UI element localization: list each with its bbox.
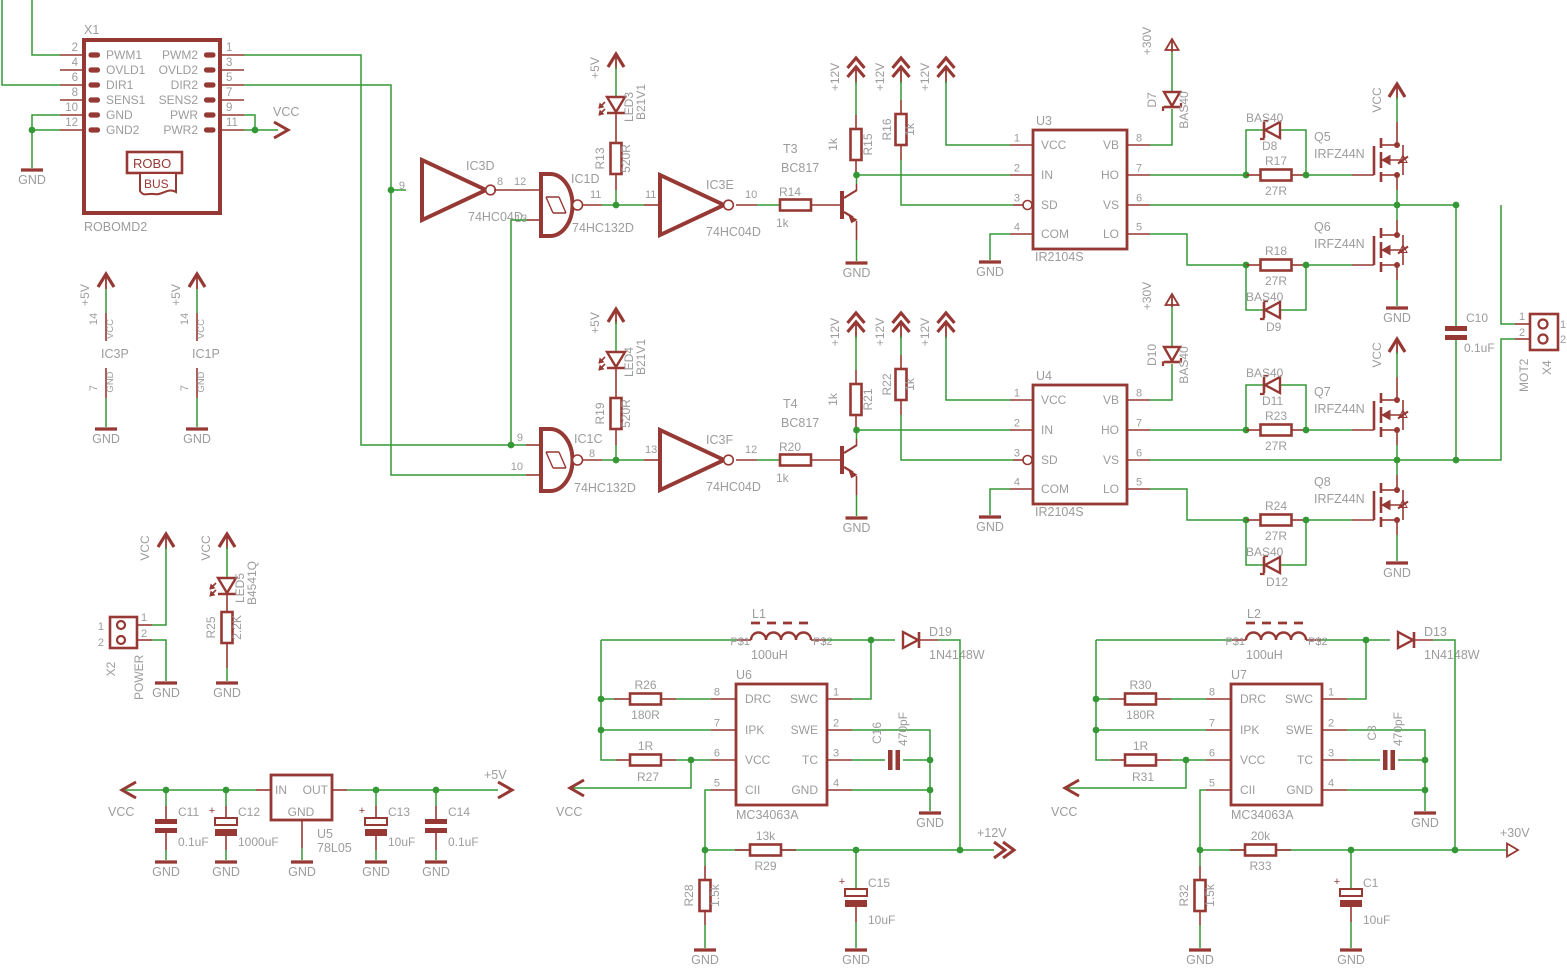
- wire VCC column to L2: [1096, 639, 1231, 641]
- svg-text:IPK: IPK: [745, 723, 764, 737]
- LED LED3 B21V1: [599, 84, 648, 122]
- inverter IC3E 74HC04D: [660, 175, 761, 239]
- svg-text:1k: 1k: [776, 216, 790, 230]
- svg-text:T3: T3: [783, 142, 798, 156]
- wire C14 to ground: [435, 833, 437, 860]
- svg-text:IR2104S: IR2104S: [1035, 250, 1084, 264]
- svg-text:4: 4: [1014, 222, 1020, 234]
- resistor R33 20k: [1230, 829, 1291, 873]
- svg-text:IC3F: IC3F: [706, 433, 733, 447]
- wire Q5 source to VS node: [1396, 175, 1398, 205]
- svg-text:10: 10: [511, 461, 523, 473]
- svg-text:1: 1: [1519, 311, 1525, 323]
- voltage regulator U5 78L05: [256, 775, 352, 855]
- svg-text:GND: GND: [1186, 953, 1214, 967]
- svg-text:8: 8: [1136, 388, 1142, 400]
- wire VS node to Q8 drain: [1396, 460, 1398, 490]
- wire R24 to Q8 gate: [1306, 519, 1374, 521]
- svg-text:IRFZ44N: IRFZ44N: [1314, 402, 1365, 416]
- diode D19 1N4148W: [871, 625, 985, 662]
- svg-text:IC1C: IC1C: [574, 432, 602, 446]
- ground under C15: [842, 950, 870, 967]
- ground under U5: [288, 862, 316, 879]
- wire VS1 to C10: [1455, 205, 1457, 326]
- supply +30V arrow above D10: [1140, 282, 1179, 310]
- wire U3 COM to ground: [990, 234, 1010, 260]
- wire VCC to LED5: [226, 547, 228, 578]
- wire VCC tap to arrow: [1068, 760, 1186, 788]
- resistor R24 27R: [1246, 499, 1306, 543]
- svg-text:0.1uF: 0.1uF: [448, 835, 479, 849]
- pin label 9 IC3D input: [399, 180, 405, 192]
- diode D11 BAS40 bypass: [1246, 366, 1306, 430]
- svg-text:D13: D13: [1424, 625, 1447, 639]
- junction VCC tap: [688, 757, 695, 764]
- LED LED4 B21V1: [599, 339, 648, 377]
- svg-text:0.1uF: 0.1uF: [1464, 341, 1495, 355]
- svg-text:GND: GND: [183, 432, 211, 446]
- junction VS at cap column: [1453, 202, 1460, 209]
- supply +12V arrow above R21: [828, 313, 865, 346]
- junction node PWM2 at IC1C pin 9: [508, 442, 515, 449]
- svg-text:7: 7: [1136, 418, 1142, 430]
- svg-text:COM: COM: [1041, 482, 1069, 496]
- capacitor C14 0.1uF: [425, 805, 479, 849]
- svg-text:OVLD2: OVLD2: [159, 63, 199, 77]
- svg-text:Q5: Q5: [1314, 130, 1331, 144]
- svg-text:74HC04D: 74HC04D: [706, 225, 761, 239]
- svg-text:PWR2: PWR2: [163, 123, 198, 137]
- svg-text:VCC: VCC: [1370, 342, 1384, 368]
- svg-text:DIR2: DIR2: [171, 78, 199, 92]
- svg-text:1.5k: 1.5k: [1203, 883, 1217, 907]
- wire VS to cap column: [1397, 459, 1456, 461]
- pin label 11/13 IC3E input: [645, 189, 656, 201]
- svg-text:HO: HO: [1101, 168, 1119, 182]
- svg-text:5: 5: [226, 72, 232, 84]
- wire SWC up: [1347, 640, 1366, 699]
- wire +30V to D7: [1171, 52, 1173, 92]
- svg-text:470pF: 470pF: [896, 712, 910, 746]
- supply VCC arrow above Q7: [1370, 339, 1405, 368]
- wire D7 to VB pin: [1150, 109, 1172, 145]
- svg-text:GND: GND: [691, 953, 719, 967]
- svg-text:X1: X1: [84, 23, 99, 37]
- junction GND node: [1422, 787, 1429, 794]
- svg-text:11: 11: [645, 189, 656, 201]
- wire L2 to D13: [1321, 639, 1366, 641]
- resistor R30 180R: [1096, 678, 1206, 722]
- resistor R23 27R: [1246, 409, 1306, 453]
- svg-text:1R: 1R: [638, 739, 654, 753]
- svg-text:520R: 520R: [619, 399, 633, 428]
- svg-text:IN: IN: [275, 783, 287, 797]
- junction SWC node: [1363, 637, 1370, 644]
- svg-text:PWR: PWR: [170, 108, 198, 122]
- svg-text:VCC: VCC: [273, 105, 299, 119]
- svg-text:SD: SD: [1041, 198, 1058, 212]
- svg-text:7: 7: [179, 385, 191, 391]
- wire IC3E out to R14: [736, 204, 780, 206]
- wire cap column to ground: [1424, 760, 1426, 811]
- svg-text:R14: R14: [779, 185, 801, 199]
- resistor R25 2.2K: [204, 612, 244, 643]
- junction R28 top: [702, 847, 709, 854]
- svg-text:GND: GND: [916, 816, 944, 830]
- svg-text:DIR1: DIR1: [106, 78, 134, 92]
- diode D8 BAS40 bypass: [1246, 111, 1306, 175]
- svg-text:VCC: VCC: [108, 805, 134, 819]
- svg-text:12: 12: [514, 176, 526, 188]
- svg-text:1: 1: [1014, 388, 1020, 400]
- svg-text:+12V: +12V: [873, 318, 887, 346]
- svg-text:10uF: 10uF: [1363, 913, 1390, 927]
- junction GND node: [927, 787, 934, 794]
- wire VCC to Q7 drain: [1396, 352, 1398, 400]
- svg-text:20k: 20k: [1251, 829, 1271, 843]
- svg-text:LO: LO: [1103, 227, 1119, 241]
- svg-text:SD: SD: [1041, 453, 1058, 467]
- wire IC1D output to node: [583, 204, 616, 206]
- wire SWE to cap column: [852, 730, 930, 760]
- svg-text:R30: R30: [1129, 678, 1151, 692]
- svg-text:GND: GND: [105, 371, 116, 392]
- svg-text:8: 8: [1136, 133, 1142, 145]
- supply +12V arrow for driver VCC: [918, 58, 955, 91]
- svg-text:+12V: +12V: [828, 63, 842, 91]
- svg-text:VCC: VCC: [138, 535, 152, 561]
- resistor R20 1k: [776, 440, 811, 485]
- svg-text:MC34063A: MC34063A: [736, 808, 799, 822]
- svg-text:GND: GND: [1286, 783, 1313, 797]
- wire L1 to D19: [826, 639, 871, 641]
- wire column junction R30: [1093, 696, 1100, 734]
- junction node DIR2 at IC3D input: [388, 187, 395, 194]
- op-amp driver U4 IR2104S: [1010, 369, 1150, 519]
- wire T3 emitter to ground: [856, 221, 858, 261]
- svg-text:GND: GND: [976, 265, 1004, 279]
- wire VS to cap column: [1397, 204, 1456, 206]
- svg-text:BAS40: BAS40: [1177, 346, 1191, 384]
- wire D10 to VB pin: [1150, 364, 1172, 400]
- wire feedback rail: [1200, 849, 1455, 851]
- svg-text:GND: GND: [212, 865, 240, 879]
- capacitor C3 470pF: [1347, 712, 1425, 770]
- svg-text:R15: R15: [861, 133, 875, 155]
- nand gate IC1C 74HC132D: [541, 429, 636, 495]
- junction collector node: [853, 427, 860, 434]
- wire +12V to driver VCC pin: [946, 336, 1010, 400]
- svg-text:VS: VS: [1103, 453, 1119, 467]
- svg-text:L2: L2: [1247, 607, 1261, 621]
- wire +12V to R22: [900, 336, 902, 355]
- wire net GND from X2 pin 2: [152, 640, 166, 681]
- svg-text:VS: VS: [1103, 198, 1119, 212]
- svg-text:100uH: 100uH: [751, 648, 788, 662]
- wire T3 collector: [856, 175, 858, 190]
- svg-text:SWE: SWE: [791, 723, 818, 737]
- svg-text:IRFZ44N: IRFZ44N: [1314, 237, 1365, 251]
- wire U4 COM to ground: [990, 489, 1010, 515]
- svg-text:C15: C15: [868, 876, 890, 890]
- svg-text:U4: U4: [1036, 369, 1052, 383]
- svg-text:5: 5: [1136, 222, 1142, 234]
- ground under X2: [152, 683, 180, 700]
- svg-text:180R: 180R: [1126, 708, 1155, 722]
- wire collector node to driver IN: [857, 429, 1011, 431]
- supply VCC arrow above LED5: [199, 534, 235, 561]
- svg-text:X2: X2: [104, 661, 118, 676]
- svg-text:R33: R33: [1249, 859, 1271, 873]
- svg-text:+12V: +12V: [918, 63, 932, 91]
- svg-text:2: 2: [1014, 163, 1020, 175]
- svg-text:TC: TC: [802, 753, 818, 767]
- svg-text:R32: R32: [1177, 884, 1191, 906]
- svg-text:P$1: P$1: [730, 636, 750, 648]
- resistor R32 1.5k: [1177, 850, 1217, 948]
- svg-text:520R: 520R: [619, 144, 633, 173]
- svg-text:GND: GND: [196, 371, 207, 392]
- ground under T4: [843, 518, 871, 535]
- wire node to inverter input: [616, 459, 660, 461]
- svg-text:U6: U6: [736, 668, 752, 682]
- ground under C16: [916, 813, 944, 830]
- svg-text:GND: GND: [843, 521, 871, 535]
- svg-text:+12V: +12V: [873, 63, 887, 91]
- wire IC1D pin 13 to IC1C pin 9: [511, 220, 541, 445]
- wire Q6 source to ground: [1396, 265, 1398, 306]
- connector X2 POWER: [98, 612, 152, 700]
- svg-text:C13: C13: [388, 805, 410, 819]
- junction C15 top: [853, 847, 860, 854]
- svg-text:VCC: VCC: [1041, 138, 1067, 152]
- svg-text:1: 1: [833, 687, 839, 699]
- wire R25 to ground: [226, 643, 228, 681]
- wire +12V to R15: [855, 81, 857, 115]
- svg-text:GND: GND: [288, 805, 315, 819]
- svg-text:LO: LO: [1103, 482, 1119, 496]
- junction VCC tap: [1183, 757, 1190, 764]
- ground under C12: [212, 862, 240, 879]
- wire CII down: [705, 790, 711, 850]
- svg-text:GND: GND: [152, 865, 180, 879]
- svg-text:VCC: VCC: [745, 753, 771, 767]
- svg-text:L1: L1: [752, 607, 766, 621]
- resistor R29 13k: [735, 829, 796, 873]
- svg-text:7: 7: [226, 87, 232, 99]
- transistor T4 BC817: [781, 397, 857, 478]
- wire VS2 to X4 pin 2: [1456, 339, 1515, 460]
- supply VCC arrow above Q5: [1370, 84, 1405, 113]
- wire D13 to output rail: [1433, 640, 1455, 850]
- op-amp converter U7 MC34063A: [1206, 668, 1347, 822]
- op-amp driver U3 IR2104S: [1010, 114, 1150, 264]
- svg-text:1: 1: [1014, 133, 1020, 145]
- svg-text:VCC: VCC: [1240, 753, 1266, 767]
- junction C11 on rail: [163, 787, 170, 794]
- svg-text:4: 4: [1014, 477, 1020, 489]
- svg-text:R26: R26: [634, 678, 656, 692]
- svg-text:2: 2: [141, 628, 147, 640]
- wire IPK to column: [1096, 729, 1206, 731]
- svg-text:5: 5: [714, 778, 720, 790]
- svg-text:IN: IN: [1041, 423, 1053, 437]
- wire R20 to T4 base: [811, 459, 840, 461]
- junction TC node: [1422, 757, 1429, 764]
- svg-text:GND: GND: [843, 266, 871, 280]
- svg-text:C10: C10: [1466, 311, 1488, 325]
- junction node at gate output: [613, 457, 620, 464]
- wire R23 to Q7 gate: [1306, 429, 1374, 431]
- diode D7 BAS40: [1145, 91, 1191, 129]
- junction rail output: [957, 847, 964, 854]
- resistor R22 1k: [880, 355, 917, 400]
- power pins IC3P 74HC VCC/GND: [78, 274, 129, 446]
- svg-text:+5V: +5V: [588, 57, 602, 79]
- pin label IC3E output: [745, 189, 757, 201]
- resistor R26 180R: [601, 678, 711, 722]
- wire C10 to VS2: [1455, 340, 1457, 460]
- svg-text:VCC: VCC: [199, 535, 213, 561]
- svg-text:ROBO: ROBO: [133, 156, 171, 171]
- pin labels 8 12 IC3D out to IC1D in: [497, 176, 526, 188]
- svg-text:8: 8: [714, 687, 720, 699]
- resistor R14 1k: [776, 185, 811, 230]
- svg-text:8: 8: [1209, 687, 1215, 699]
- wire CII down: [1200, 790, 1206, 850]
- svg-text:MOT2: MOT2: [1517, 358, 1531, 392]
- svg-text:+12V: +12V: [977, 826, 1007, 840]
- svg-text:VCC: VCC: [1370, 87, 1384, 113]
- junction VS at cap column: [1453, 457, 1460, 464]
- svg-text:GND: GND: [213, 686, 241, 700]
- capacitor C11 0.1uF: [155, 805, 209, 849]
- svg-text:7: 7: [1209, 718, 1215, 730]
- svg-text:OUT: OUT: [303, 783, 329, 797]
- supply +30V arrow above D7: [1140, 27, 1179, 55]
- svg-text:1N4148W: 1N4148W: [1424, 648, 1480, 662]
- svg-text:3: 3: [1328, 748, 1334, 760]
- svg-text:27R: 27R: [1265, 184, 1287, 198]
- svg-text:VCC: VCC: [105, 319, 116, 339]
- capacitor C15 10uF: [839, 850, 896, 948]
- wire R13 to node: [615, 174, 617, 205]
- svg-text:1.5k: 1.5k: [708, 883, 722, 907]
- wire LED4 to R19: [615, 368, 617, 398]
- svg-text:+: +: [359, 805, 365, 817]
- wire net PWM2 from X1 pin 1: [244, 55, 526, 445]
- svg-text:180R: 180R: [631, 708, 660, 722]
- wire T4 emitter to ground: [856, 476, 858, 516]
- svg-text:VCC: VCC: [1041, 393, 1067, 407]
- svg-text:78L05: 78L05: [317, 841, 352, 855]
- svg-text:D8: D8: [1262, 139, 1278, 153]
- svg-text:2: 2: [1560, 334, 1566, 346]
- supply +12V arrow above R22: [873, 313, 910, 346]
- ground under R28: [691, 950, 719, 967]
- ground under U3 COM: [976, 262, 1004, 279]
- svg-text:R19: R19: [593, 402, 607, 424]
- svg-text:9: 9: [226, 102, 232, 114]
- svg-text:BUS: BUS: [144, 177, 169, 191]
- svg-text:D9: D9: [1266, 320, 1282, 334]
- wire R14 to T3 base: [811, 204, 840, 206]
- svg-text:R27: R27: [637, 770, 659, 784]
- wire cap column to ground: [929, 760, 931, 811]
- svg-text:3: 3: [1014, 448, 1020, 460]
- svg-text:IRFZ44N: IRFZ44N: [1314, 147, 1365, 161]
- svg-text:IC3D: IC3D: [466, 159, 494, 173]
- svg-text:R20: R20: [779, 440, 801, 454]
- ground under T3: [843, 263, 871, 280]
- junction left of R17: [1243, 172, 1250, 179]
- svg-text:PWM1: PWM1: [106, 48, 142, 62]
- svg-text:2.2K: 2.2K: [230, 615, 244, 640]
- svg-text:P$1: P$1: [1225, 636, 1245, 648]
- svg-text:13: 13: [515, 213, 527, 225]
- svg-text:100uH: 100uH: [1246, 648, 1283, 662]
- svg-text:R25: R25: [204, 616, 218, 638]
- svg-text:1k: 1k: [826, 137, 840, 151]
- wire net VCC from X1 pins 9,11: [244, 115, 278, 133]
- op-amp converter U6 MC34063A: [711, 668, 852, 822]
- junction node at gate output: [613, 202, 620, 209]
- svg-text:IC1P: IC1P: [192, 347, 220, 361]
- ground under Q6: [1383, 308, 1411, 325]
- wire D19 to output rail: [938, 640, 960, 850]
- junction C1 top: [1348, 847, 1355, 854]
- supply +12V arrow for driver VCC: [918, 313, 955, 346]
- wire R17 to Q5 gate: [1306, 174, 1374, 176]
- wire net GND from X1 pins 10,12: [29, 115, 60, 168]
- transistor Q5 IRFZ44N: [1314, 130, 1408, 182]
- svg-text:6: 6: [1136, 448, 1142, 460]
- junction VS at half bridge: [1394, 202, 1401, 209]
- resistor R27 1R: [616, 739, 711, 784]
- wire collector node to driver IN: [857, 174, 1011, 176]
- svg-text:GND: GND: [976, 520, 1004, 534]
- svg-text:Q6: Q6: [1314, 220, 1331, 234]
- diode D10 BAS40: [1145, 344, 1191, 384]
- ground under C1: [1337, 950, 1365, 967]
- pin label 13 IC1D: [515, 213, 527, 225]
- supply +5V arrow above LED3: [588, 54, 624, 79]
- svg-text:12: 12: [65, 117, 78, 129]
- svg-text:0.1uF: 0.1uF: [178, 835, 209, 849]
- svg-text:7: 7: [1136, 163, 1142, 175]
- wire IC3F out to R20: [736, 459, 780, 461]
- svg-text:VCC: VCC: [1051, 805, 1077, 819]
- supply +5V arrow right of rail: [484, 768, 512, 798]
- wire VS1 to X4 pin 1: [1501, 205, 1515, 324]
- svg-text:B21V1: B21V1: [634, 84, 648, 120]
- wire T4 collector: [856, 430, 858, 445]
- svg-text:1: 1: [1560, 319, 1566, 331]
- wire rail to C14: [435, 790, 437, 819]
- connector X1 ROBOMD2: [60, 23, 244, 234]
- svg-text:13: 13: [645, 444, 657, 456]
- svg-text:IN: IN: [1041, 168, 1053, 182]
- svg-text:GND: GND: [362, 865, 390, 879]
- wire net DIR1 to X1 pin 6: [2, 0, 60, 85]
- svg-text:BAS40: BAS40: [1246, 111, 1284, 125]
- svg-text:10uF: 10uF: [388, 835, 415, 849]
- svg-text:9: 9: [399, 180, 405, 192]
- svg-text:1: 1: [226, 42, 232, 54]
- svg-text:7: 7: [714, 718, 720, 730]
- svg-text:1N4148W: 1N4148W: [929, 648, 985, 662]
- diode D12 BAS40 bypass: [1246, 520, 1306, 589]
